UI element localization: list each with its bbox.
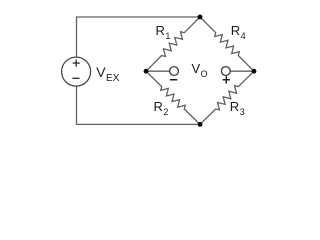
label R2 [154,100,168,113]
node left junction dot [144,69,149,74]
output minus sign [171,79,177,81]
wire left vertical upper [76,17,78,57]
resistor R3 (right node to bottom node) [200,71,254,124]
label R4 [231,24,245,37]
node bottom junction dot [198,122,203,127]
voltage source VEX circle [62,57,91,86]
wire left vertical lower [76,86,78,124]
wire output terminal + to right node [230,70,254,72]
wire top: source to top node [77,16,201,18]
VEX plus sign [73,60,79,66]
output terminal circle positive [221,67,230,76]
node top junction dot [198,15,203,20]
output terminal circle negative [170,67,179,76]
label R1 [156,24,170,37]
label VO [192,62,208,75]
node right junction dot [252,69,257,74]
resistor R1 (left node to top node) [146,17,200,71]
wire bottom: source to bottom node [77,123,201,125]
label VEX [96,65,119,80]
wire left node to output terminal - [146,70,170,72]
resistor R2 (left node to bottom node) [146,71,200,124]
label R3 [230,100,244,113]
output plus sign [223,77,229,83]
resistor R4 (top node to right node) [200,17,254,71]
VEX minus sign [73,77,79,79]
